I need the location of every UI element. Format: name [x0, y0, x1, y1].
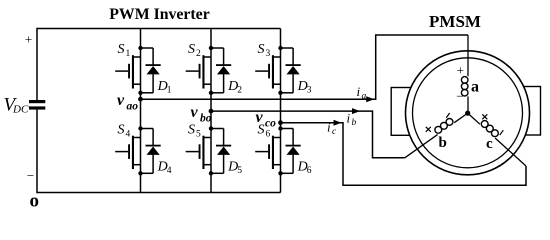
label S2 — [188, 42, 201, 59]
label S4 — [118, 123, 131, 140]
node junction D1 bottom — [138, 91, 142, 95]
diode D6 — [286, 145, 301, 155]
title PMSM — [429, 12, 481, 31]
svg-text:o: o — [30, 191, 40, 212]
transistor S1 — [115, 55, 140, 88]
label D3 — [297, 79, 312, 96]
label D5 — [227, 160, 242, 177]
svg-text:v: v — [256, 109, 264, 126]
PMSM mounting tab right — [518, 87, 541, 136]
svg-text:6: 6 — [307, 166, 312, 176]
svg-text:PMSM: PMSM — [429, 12, 481, 31]
svg-text:S: S — [118, 42, 125, 57]
svg-text:a: a — [362, 92, 367, 102]
svg-text:−: − — [27, 168, 34, 183]
label i_b — [347, 111, 357, 129]
node v_ao — [138, 97, 143, 102]
label v_bo — [191, 104, 212, 125]
winding a plus mark — [457, 62, 464, 77]
diode D1 — [146, 64, 161, 74]
svg-text:a: a — [471, 78, 479, 95]
label S6 — [258, 123, 271, 140]
label winding c — [486, 136, 493, 152]
svg-text:S: S — [118, 123, 125, 138]
svg-text:DC: DC — [12, 104, 29, 116]
svg-text:6: 6 — [266, 130, 271, 140]
label S1 — [118, 42, 131, 59]
transistor S6 — [255, 136, 280, 169]
PMSM mounting tab left — [391, 88, 416, 136]
wire top DC bus — [37, 28, 281, 30]
diode D3 — [286, 64, 301, 74]
svg-text:i: i — [347, 111, 351, 126]
node junction S3 top — [278, 46, 282, 50]
wire D6 branch — [281, 129, 294, 174]
winding a leads — [467, 35, 469, 113]
node v_co — [278, 120, 283, 125]
label S3 — [258, 42, 271, 59]
diode D4 — [146, 145, 161, 155]
label V_DC — [4, 95, 29, 116]
winding b coil — [435, 119, 453, 134]
label D1 — [157, 79, 172, 96]
wire bottom DC bus — [37, 192, 281, 194]
wire left rail lower — [36, 110, 38, 194]
svg-text:S: S — [188, 123, 195, 138]
svg-text:b: b — [439, 135, 447, 151]
label i_c — [327, 120, 337, 138]
plus terminal label — [25, 32, 32, 47]
transistor S5 — [186, 136, 211, 169]
winding c leads — [468, 113, 526, 166]
current arrow i_a — [366, 96, 374, 102]
svg-text:3: 3 — [266, 49, 271, 59]
winding c coil — [481, 121, 498, 137]
svg-text:bo: bo — [200, 113, 212, 125]
svg-text:S: S — [258, 42, 265, 57]
label winding b — [439, 135, 447, 151]
wire inverter leg 2 — [210, 29, 212, 193]
svg-text:i: i — [357, 84, 361, 99]
svg-text:4: 4 — [126, 130, 131, 140]
svg-text:PWM Inverter: PWM Inverter — [109, 6, 209, 23]
svg-text:5: 5 — [237, 166, 242, 176]
svg-text:v: v — [117, 92, 125, 109]
node junction S6 top — [278, 126, 282, 130]
svg-text:1: 1 — [126, 49, 131, 59]
wire left rail upper — [36, 28, 38, 100]
node junction D5 bottom — [209, 171, 213, 175]
minus terminal label — [27, 168, 34, 183]
svg-text:b: b — [352, 118, 357, 128]
diode D2 — [216, 64, 231, 74]
wire phase b — [211, 111, 405, 158]
winding b polarity tick — [446, 113, 449, 118]
svg-text:co: co — [265, 118, 276, 130]
svg-text:4: 4 — [167, 166, 172, 176]
wire D5 branch — [211, 129, 224, 174]
svg-text:−: − — [456, 89, 463, 104]
title PWM Inverter — [109, 6, 209, 23]
transistor S3 — [255, 55, 280, 88]
svg-text:ao: ao — [127, 101, 139, 113]
winding b cross mark — [426, 127, 431, 132]
transistor S4 — [115, 136, 140, 169]
wire D3 branch — [281, 48, 294, 93]
node o label — [30, 191, 40, 212]
wire inverter leg 1 — [140, 29, 142, 193]
transistor S2 — [186, 55, 211, 88]
node junction D2 bottom — [209, 91, 213, 95]
winding b leads — [405, 113, 468, 158]
svg-text:3: 3 — [307, 86, 312, 96]
wire D1 branch — [141, 48, 154, 93]
svg-text:1: 1 — [167, 86, 172, 96]
label winding a — [471, 78, 479, 95]
label D6 — [297, 160, 312, 177]
node v_bo — [209, 109, 214, 114]
wire inverter leg 3 — [280, 29, 282, 193]
node junction S2 top — [209, 46, 213, 50]
diode D5 — [216, 145, 231, 155]
svg-text:+: + — [457, 62, 464, 77]
svg-text:5: 5 — [196, 130, 201, 140]
current arrow i_b — [352, 108, 360, 114]
svg-text:2: 2 — [196, 49, 201, 59]
node junction D3 bottom — [278, 91, 282, 95]
label D2 — [227, 79, 242, 96]
label i_a — [357, 84, 367, 102]
label D4 — [157, 160, 172, 177]
svg-text:+: + — [25, 32, 32, 47]
wire D2 branch — [211, 48, 224, 93]
node junction D4 bottom — [138, 171, 142, 175]
label v_co — [256, 109, 277, 130]
label S5 — [188, 123, 201, 140]
svg-text:v: v — [191, 104, 199, 121]
svg-text:S: S — [188, 42, 195, 57]
winding c cross mark — [482, 114, 487, 119]
PMSM stator outer circle — [406, 51, 530, 175]
svg-text:i: i — [327, 120, 331, 135]
svg-text:2: 2 — [237, 86, 242, 96]
node junction S5 top — [209, 126, 213, 130]
label v_ao — [117, 92, 138, 113]
wire phase c — [281, 123, 527, 186]
wire D4 branch — [141, 129, 154, 174]
node neutral — [465, 111, 470, 116]
current arrow i_c — [334, 120, 342, 126]
wire phase a — [141, 35, 469, 99]
PMSM stator inner circle — [413, 58, 523, 168]
capacitor C dc-link — [29, 100, 45, 110]
node junction S4 top — [138, 126, 142, 130]
node junction D6 bottom — [278, 171, 282, 175]
winding a minus mark — [456, 89, 463, 104]
svg-text:c: c — [486, 136, 493, 152]
winding a coil — [461, 77, 468, 96]
node junction S1 top — [138, 46, 142, 50]
winding c polarity tick — [500, 130, 504, 135]
